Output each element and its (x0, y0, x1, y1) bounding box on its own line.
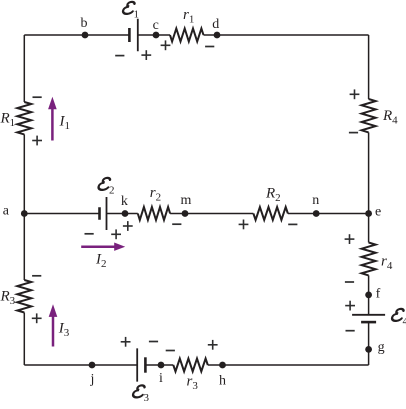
node i (158, 362, 165, 369)
svg-text:R4: R4 (382, 108, 398, 127)
node j (89, 362, 96, 369)
left wire top segment (23, 35, 25, 102)
wire E4 to bottom-right corner (368, 322, 370, 365)
current arrow I3 (52, 316, 55, 347)
minus sign E3 (149, 341, 158, 343)
wire r1 to top-right corner (204, 34, 369, 36)
node f (365, 292, 372, 299)
wire r4 to node f (368, 275, 370, 314)
right wire middle segment (368, 132, 370, 242)
svg-text:h: h (219, 374, 226, 389)
resistor R1 (17, 102, 31, 134)
label EMF3 (132, 385, 149, 403)
plus sign R1 (32, 140, 42, 142)
plus sign E1 (141, 54, 151, 56)
resistor R3 (17, 280, 31, 313)
label EMF1 (122, 2, 139, 20)
svg-text:3: 3 (144, 392, 150, 404)
left wire middle segment (23, 134, 25, 280)
node g (365, 346, 372, 353)
svg-text:f: f (376, 286, 381, 301)
svg-text:k: k (121, 194, 128, 209)
current arrow I1 (51, 108, 54, 140)
svg-text:d: d (212, 17, 219, 32)
node a (21, 210, 28, 217)
node b (82, 32, 89, 39)
minus sign r1 (205, 46, 214, 48)
resistor r3 (173, 359, 208, 372)
plus sign r2 (123, 225, 133, 227)
svg-text:r2: r2 (150, 185, 161, 204)
wire R2 to node e (288, 213, 369, 215)
left wire bottom segment (23, 313, 25, 366)
minus sign R4 (349, 132, 358, 134)
svg-text:r3: r3 (187, 373, 199, 392)
svg-text:R2: R2 (265, 185, 281, 204)
resistor R2 (253, 207, 288, 220)
svg-text:c: c (153, 18, 159, 33)
node c (153, 32, 160, 39)
wire r2 to R2 (170, 213, 253, 215)
svg-text:I2: I2 (95, 252, 107, 271)
minus sign R2 (288, 223, 297, 225)
wire E1 to node c (138, 34, 170, 36)
svg-text:r4: r4 (381, 254, 393, 273)
bottom wire left segment (24, 364, 137, 366)
svg-text:4: 4 (403, 315, 406, 327)
plus sign E3 (121, 341, 131, 343)
plus sign R2 (239, 223, 249, 225)
node n (313, 210, 320, 217)
wire E3 to r3 (145, 364, 173, 366)
minus sign r3 (166, 350, 175, 352)
minus sign R1 (33, 96, 42, 98)
minus sign r4 (345, 281, 354, 283)
battery E3 (144, 357, 147, 372)
node d (214, 32, 221, 39)
plus sign r4 (345, 238, 355, 240)
node e (365, 210, 372, 217)
label EMF4 (391, 309, 406, 327)
svg-text:I3: I3 (58, 321, 70, 340)
plus sign r1 (161, 44, 171, 46)
svg-text:R1: R1 (0, 111, 15, 130)
middle wire a to E2 (24, 213, 99, 215)
svg-text:j: j (90, 372, 95, 387)
svg-text:r1: r1 (183, 7, 194, 26)
svg-text:i: i (159, 371, 163, 386)
resistor r2 (138, 207, 170, 220)
svg-text:I1: I1 (59, 114, 71, 133)
wire E2 to r2 (107, 213, 138, 215)
wire top-left segment (24, 34, 129, 36)
svg-text:m: m (181, 193, 192, 208)
plus sign E2 (111, 233, 121, 235)
minus sign R3 (32, 275, 41, 277)
label EMF2 (98, 178, 115, 196)
node m (182, 210, 189, 217)
plus sign R3 (32, 317, 42, 319)
battery E4 (361, 321, 376, 324)
minus sign r2 (172, 223, 181, 225)
node h (219, 362, 226, 369)
svg-text:n: n (312, 193, 319, 208)
battery E2 (98, 207, 101, 220)
plus sign E4 (345, 305, 355, 307)
svg-text:1: 1 (134, 8, 140, 20)
svg-text:R3: R3 (0, 289, 16, 308)
current arrow I2 (81, 245, 115, 248)
minus sign E1 (115, 55, 124, 57)
resistor r4 (362, 243, 376, 276)
resistor R4 (362, 99, 376, 132)
minus sign E4 (346, 330, 355, 332)
svg-text:g: g (378, 340, 385, 355)
svg-text:2: 2 (109, 184, 115, 196)
node k (122, 210, 129, 217)
right wire top segment (368, 35, 370, 99)
resistor r1 (170, 29, 204, 42)
svg-text:b: b (81, 16, 88, 31)
minus sign E2 (85, 233, 94, 235)
battery E1 (128, 28, 131, 42)
plus sign R4 (350, 93, 360, 95)
svg-text:a: a (3, 203, 10, 218)
plus sign r3 (208, 344, 218, 346)
svg-text:e: e (375, 204, 381, 219)
wire r3 to bottom-right corner (208, 364, 369, 366)
